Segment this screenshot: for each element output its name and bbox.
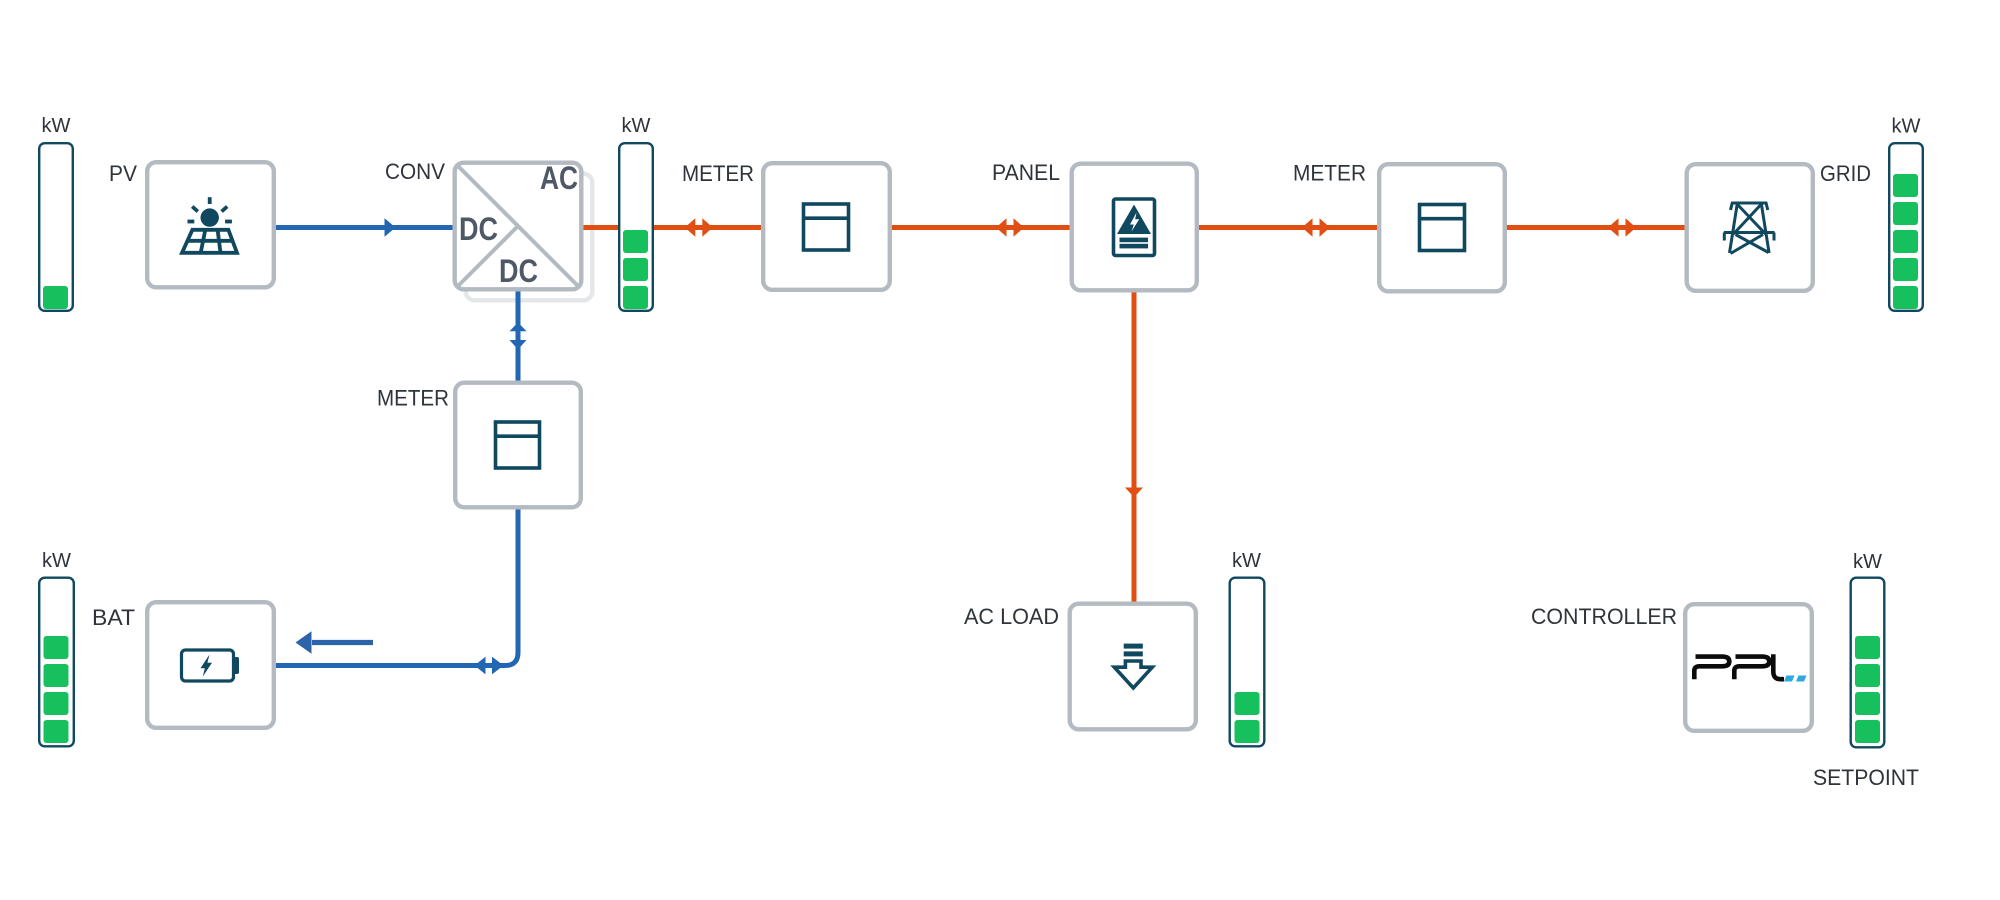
svg-text:DC: DC <box>459 211 498 247</box>
svg-text:PV: PV <box>109 161 137 186</box>
svg-text:kW: kW <box>42 115 71 137</box>
box GRID <box>1687 164 1813 291</box>
svg-text:SETPOINT: SETPOINT <box>1813 765 1919 790</box>
BOXES <box>147 162 1813 731</box>
gauge BAT kW <box>39 578 74 747</box>
svg-text:kW: kW <box>622 115 651 137</box>
box PV <box>147 162 274 287</box>
icon meter 2 <box>1420 205 1465 251</box>
svg-text:kW: kW <box>1232 550 1261 572</box>
double arrow left/right on BAT wire <box>475 657 486 675</box>
svg-text:GRID: GRID <box>1820 161 1871 186</box>
double arrow on METER2-GRID wire <box>1608 218 1619 236</box>
box AC LOAD <box>1070 604 1196 730</box>
double arrow on PANEL-METER2 wire <box>1302 218 1313 236</box>
svg-text:DC: DC <box>499 253 538 289</box>
icon grid tower <box>1724 202 1775 254</box>
gauge AC LOAD kW level bars <box>1235 692 1260 743</box>
icon AC load down arrow <box>1114 644 1152 688</box>
wire METER2 to GRID (orange) <box>1506 225 1685 230</box>
svg-text:METER: METER <box>377 386 449 411</box>
box METER2 <box>1379 164 1505 291</box>
double arrow on METER1-PANEL wire <box>996 218 1007 236</box>
box BAT <box>147 602 274 728</box>
gauge PV kW <box>39 143 73 311</box>
svg-text:CONTROLLER: CONTROLLER <box>1531 604 1677 629</box>
svg-text:kW: kW <box>1892 116 1921 138</box>
gauge PV kW level bar <box>43 286 68 309</box>
gauge AC LOAD kW <box>1230 578 1265 747</box>
gauge CONV kW level bars <box>623 230 648 309</box>
svg-text:AC: AC <box>540 160 578 196</box>
box CONTROLLER <box>1685 604 1812 731</box>
gauge SETPOINT kW level bars <box>1855 636 1880 743</box>
floating flow arrow toward BAT <box>312 640 373 645</box>
gauge BAT kW level bars <box>44 636 69 743</box>
svg-text:kW: kW <box>1853 551 1882 573</box>
wire CONV to kW gauge (orange) <box>583 225 619 230</box>
gauge GRID kW <box>1889 143 1923 311</box>
box mid METER <box>455 383 581 508</box>
down arrow on PANEL-ACLOAD wire <box>1125 488 1143 498</box>
converter internal diagonals <box>457 165 580 288</box>
box METER1 <box>763 163 890 290</box>
arrow right on PV wire <box>385 218 396 236</box>
converter shadow box <box>466 174 593 301</box>
wire mid METER to BAT (blue, corner) <box>276 509 518 666</box>
icon PV solar panel <box>182 197 237 253</box>
svg-text:METER: METER <box>682 161 754 186</box>
gauge SETPOINT kW <box>1851 578 1885 748</box>
svg-text:CONV: CONV <box>385 159 445 184</box>
GAUGES <box>39 143 1923 747</box>
wire CONV to mid METER (blue vertical) <box>516 291 521 381</box>
wire gauge to METER1 (orange) <box>653 225 762 230</box>
double arrow up/down on CONV-METER wire <box>510 322 527 331</box>
svg-text:kW: kW <box>42 550 71 572</box>
svg-text:PANEL: PANEL <box>992 160 1060 185</box>
wire PANEL to AC LOAD (orange vertical) <box>1132 292 1137 602</box>
icon electrical panel <box>1114 199 1155 256</box>
icon battery <box>182 650 240 681</box>
double arrow on gauge-METER1 wire <box>685 218 696 236</box>
PPL logo blue dashes <box>1784 676 1807 682</box>
wire METER1 to PANEL (orange) <box>891 225 1070 230</box>
wire PANEL to METER2 (orange) <box>1198 225 1378 230</box>
icon meter mid <box>496 422 540 468</box>
icon meter 1 <box>804 204 849 250</box>
box PANEL <box>1072 164 1197 291</box>
gauge CONV kW <box>619 143 653 311</box>
svg-text:AC LOAD: AC LOAD <box>964 604 1059 629</box>
svg-text:BAT: BAT <box>92 605 135 630</box>
box CONV <box>455 163 582 290</box>
wire PV to CONV (blue) <box>276 225 453 230</box>
PPL controller logo <box>1694 654 1784 679</box>
gauge GRID kW level bars <box>1893 174 1918 309</box>
svg-text:METER: METER <box>1293 161 1366 186</box>
